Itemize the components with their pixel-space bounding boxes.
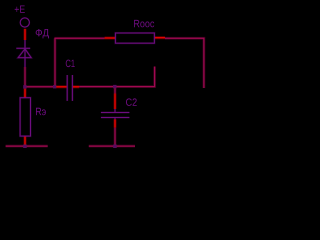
glow underlays [6,38,204,146]
terminal +E circle [20,18,29,27]
core strokes [6,38,204,146]
